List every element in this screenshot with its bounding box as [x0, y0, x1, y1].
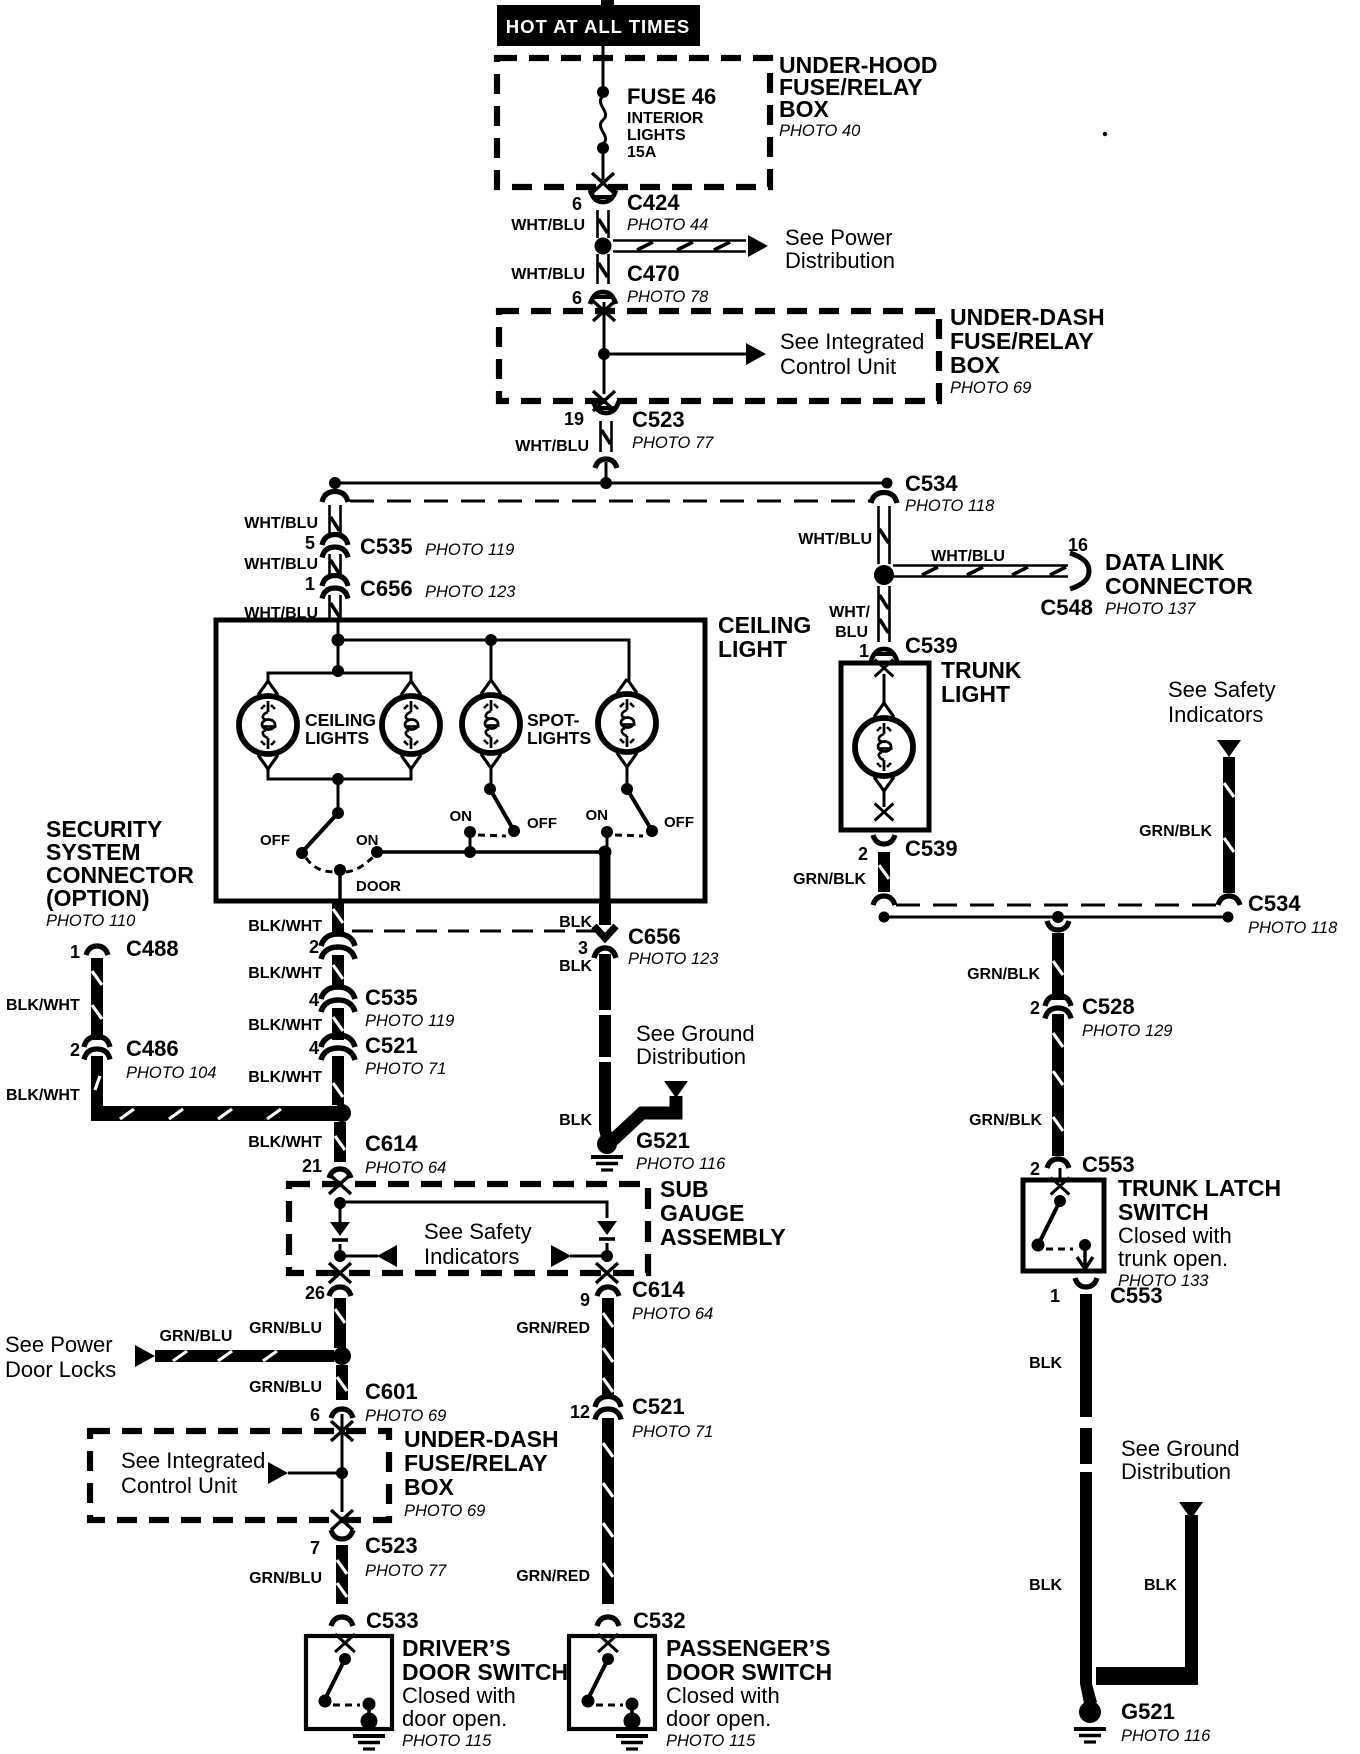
svg-text:See Ground: See Ground — [1121, 1436, 1240, 1461]
trunk latch right contact — [1079, 1239, 1091, 1251]
svg-text:WHT/BLU: WHT/BLU — [798, 531, 872, 548]
svg-text:Distribution: Distribution — [1121, 1459, 1231, 1484]
node security splice — [333, 1104, 351, 1122]
wire GRN/BLU from power door locks — [155, 1350, 334, 1362]
label passenger door switch — [666, 1635, 832, 1750]
wire down to spotlight 1 — [490, 640, 493, 681]
wire down to ceiling lamps split — [337, 640, 340, 671]
svg-text:PHOTO 123: PHOTO 123 — [425, 583, 516, 601]
passenger switch lever — [588, 1659, 608, 1699]
ceiling switch OFF contact — [296, 847, 308, 859]
svg-text:PHOTO 69: PHOTO 69 — [950, 379, 1031, 397]
svg-text:See Integrated: See Integrated — [121, 1448, 265, 1473]
power source label HOT AT ALL TIMES — [497, 5, 700, 46]
arrow exit under-hood box — [592, 173, 614, 193]
connector C523 pin 7 — [331, 1530, 353, 1539]
arrow enter under-dash box — [593, 301, 615, 321]
node integrated control tap — [598, 348, 610, 360]
svg-text:FUSE/RELAY: FUSE/RELAY — [950, 328, 1094, 354]
svg-text:19: 19 — [564, 409, 584, 429]
node bus to ground exit — [599, 846, 612, 859]
svg-text:BLK/WHT: BLK/WHT — [248, 1069, 322, 1086]
label trunk light — [941, 657, 1022, 707]
arrow inside trunk light lower — [875, 804, 894, 821]
svg-text:BLK: BLK — [1144, 1577, 1177, 1594]
svg-text:BLK: BLK — [559, 1112, 592, 1129]
arrowhead see safety right — [551, 1245, 571, 1267]
svg-text:PHOTO 118: PHOTO 118 — [1248, 919, 1338, 937]
label sub gauge assembly — [660, 1176, 786, 1250]
wire GRN/BLK bus to C528 — [1052, 933, 1064, 1000]
driver switch dashed link — [333, 1704, 360, 1707]
svg-text:OFF: OFF — [664, 814, 694, 831]
svg-text:GRN/RED: GRN/RED — [516, 1568, 590, 1585]
svg-text:C553: C553 — [1082, 1152, 1135, 1177]
svg-text:C656: C656 — [628, 924, 681, 949]
svg-text:Closed with: Closed with — [1118, 1223, 1232, 1248]
spotlight switch 1 lever — [490, 789, 513, 829]
svg-text:PHOTO 119: PHOTO 119 — [365, 1012, 454, 1030]
label C521 right — [632, 1394, 713, 1441]
svg-text:C532: C532 — [633, 1608, 686, 1633]
wire BLK/WHT C486 to splice elbow — [91, 1056, 341, 1121]
label see safety indicators right — [1168, 677, 1276, 727]
node spotlight 1 tap — [485, 634, 497, 646]
driver switch lever — [325, 1659, 345, 1699]
svg-text:21: 21 — [302, 1156, 322, 1176]
wire GRN/RED C614 to C521 — [602, 1298, 614, 1398]
ceiling switch DOOR contact — [334, 864, 346, 876]
svg-text:DATA LINK: DATA LINK — [1105, 549, 1225, 575]
label security system connector — [46, 816, 194, 930]
svg-text:trunk open.: trunk open. — [1118, 1246, 1228, 1271]
node trunk bus right — [1223, 912, 1234, 923]
connector C521 pin 12 — [595, 1397, 621, 1420]
arrow exit sub gauge left — [329, 1263, 351, 1283]
node trunk bus left — [879, 912, 890, 923]
svg-text:WHT/BLU: WHT/BLU — [511, 217, 585, 234]
connector C534 right half — [871, 493, 897, 504]
svg-text:BLK/WHT: BLK/WHT — [248, 965, 322, 982]
svg-text:door open.: door open. — [402, 1706, 507, 1731]
node fuse top — [597, 86, 609, 98]
wire DOOR contact to box edge — [338, 874, 342, 901]
svg-text:GRN/BLU: GRN/BLU — [160, 1328, 233, 1345]
wire elbow to G521 — [613, 1096, 676, 1140]
connector C523 lower half — [595, 459, 617, 468]
wire WHT/BLU below C523 — [601, 421, 612, 452]
label C614 right side — [632, 1277, 713, 1323]
svg-text:C521: C521 — [365, 1033, 418, 1058]
connector C533 — [331, 1617, 353, 1626]
svg-text:4: 4 — [309, 990, 319, 1010]
trunk latch left contact — [1032, 1239, 1045, 1252]
arrowhead from power door locks — [135, 1345, 155, 1367]
wire inside under-dash box lower — [341, 1424, 344, 1512]
wire ON bus inside ceiling box — [377, 850, 604, 854]
svg-text:PHOTO 77: PHOTO 77 — [365, 1562, 447, 1580]
connector C528 upper fork — [1047, 921, 1069, 930]
wire WHT/BLU to C539 — [879, 586, 890, 642]
svg-text:UNDER-DASH: UNDER-DASH — [950, 304, 1105, 330]
svg-text:BLK: BLK — [1029, 1577, 1062, 1594]
wire sub gauge top rail — [340, 1202, 607, 1218]
label data link connector — [1040, 549, 1253, 620]
svg-text:CEILING: CEILING — [305, 710, 376, 730]
arrowhead to integrated control unit lower — [268, 1462, 288, 1484]
spotlight switch 1 ON contact — [464, 826, 476, 838]
svg-text:Control Unit: Control Unit — [121, 1473, 237, 1498]
connector C523 pin 19 — [593, 401, 619, 413]
label see ground distribution right — [1121, 1436, 1240, 1484]
svg-text:PHOTO 78: PHOTO 78 — [627, 288, 709, 306]
ceiling switch position arc dashed — [306, 857, 373, 872]
svg-text:2: 2 — [1030, 998, 1040, 1018]
node safety pointer right — [601, 1250, 613, 1262]
label see ground distribution left — [636, 1021, 755, 1069]
svg-text:C523: C523 — [632, 407, 685, 432]
svg-text:PHOTO 44: PHOTO 44 — [627, 216, 708, 234]
wire GRN/BLU C523 to C533 — [336, 1545, 348, 1604]
svg-text:Closed with: Closed with — [666, 1683, 780, 1708]
ceiling light unit box — [216, 620, 705, 901]
connector C614 pin 21 — [329, 1169, 351, 1178]
connector C424 pin 6 — [590, 190, 616, 202]
passenger switch left contact — [582, 1695, 595, 1708]
connector C535 pin 5 — [322, 535, 348, 558]
svg-text:BLK/WHT: BLK/WHT — [248, 1134, 322, 1151]
node safety pointer left — [334, 1250, 346, 1262]
label C486 — [126, 1036, 216, 1082]
wire BLK inside ceiling box — [600, 852, 611, 899]
ceiling switch ON contact — [371, 846, 383, 858]
svg-text:15A: 15A — [627, 144, 657, 161]
wire BLK ground distribution branch — [1096, 1515, 1198, 1685]
connector C534 span dashed link — [350, 500, 872, 503]
node ceiling lamps join — [332, 773, 344, 785]
svg-text:WHT/BLU: WHT/BLU — [244, 556, 318, 573]
connector C534 left half — [322, 492, 348, 503]
svg-text:CEILING: CEILING — [718, 612, 811, 638]
arrowhead see power distribution — [748, 235, 768, 257]
arrowhead from ground distribution — [664, 1081, 688, 1098]
label see integrated control unit — [780, 329, 924, 379]
arrow enter sub gauge left — [329, 1174, 351, 1194]
connector C521 pin 4 — [321, 1035, 355, 1060]
svg-text:Control Unit: Control Unit — [780, 354, 896, 379]
connector C601 pin 6 — [331, 1409, 353, 1418]
svg-text:12: 12 — [570, 1402, 590, 1422]
node ceiling feed — [332, 634, 345, 647]
wire GRN/BLK C528 to C553 — [1052, 1014, 1064, 1156]
connector C656 pin 2 — [321, 934, 355, 959]
svg-text:C528: C528 — [1082, 994, 1135, 1019]
trunk latch lever — [1039, 1201, 1060, 1243]
connector C470 pin 6 — [590, 292, 616, 304]
safety indicator diode left — [330, 1222, 350, 1240]
svg-text:C548: C548 — [1040, 595, 1093, 620]
wire bracket over ceiling lamps — [268, 673, 411, 682]
svg-text:BLK/WHT: BLK/WHT — [6, 997, 80, 1014]
svg-text:TRUNK LATCH: TRUNK LATCH — [1118, 1175, 1281, 1201]
label driver door switch — [402, 1635, 568, 1750]
under-dash fuse/relay box — [499, 311, 939, 401]
svg-text:SWITCH: SWITCH — [1118, 1199, 1209, 1225]
connector C534 lower left half — [873, 896, 895, 905]
svg-text:1: 1 — [70, 942, 80, 962]
under-dash box label — [950, 304, 1105, 397]
svg-text:7: 7 — [310, 1538, 320, 1558]
wire BLK/WHT C535 to C521 — [332, 1008, 344, 1040]
svg-text:GRN/BLK: GRN/BLK — [967, 966, 1040, 983]
svg-text:door open.: door open. — [666, 1706, 771, 1731]
wire to door switch pivot — [337, 779, 340, 813]
svg-text:Indicators: Indicators — [424, 1244, 519, 1269]
wire inside trunk light upper — [883, 674, 886, 704]
node data link tap — [874, 565, 894, 585]
wire WHT/BLU C656 to ceiling light box — [330, 595, 341, 622]
wire WHT/BLU below C424 — [598, 210, 609, 238]
wire GRN/BLU C614 to splice — [334, 1298, 346, 1348]
svg-text:DRIVER’S: DRIVER’S — [402, 1635, 511, 1661]
svg-text:4: 4 — [309, 1038, 319, 1058]
svg-text:2: 2 — [1030, 1159, 1040, 1179]
svg-text:C553: C553 — [1110, 1283, 1163, 1308]
svg-text:C533: C533 — [366, 1608, 419, 1633]
svg-text:LIGHT: LIGHT — [941, 681, 1010, 707]
svg-text:PHOTO 115: PHOTO 115 — [666, 1732, 756, 1750]
svg-text:BOX: BOX — [950, 352, 1001, 378]
under-hood box label — [779, 52, 937, 140]
wire fuse to box edge — [602, 148, 605, 180]
svg-text:ON: ON — [450, 808, 473, 825]
connector C614 pin 9 — [597, 1287, 619, 1296]
label under-dash box lower — [404, 1426, 559, 1520]
wire C523 to splice bus — [605, 462, 608, 483]
passenger switch pivot — [602, 1653, 614, 1665]
label see integrated control unit lower — [121, 1448, 265, 1498]
label C534 top — [905, 471, 995, 515]
wire WHT/BLU C534 to data link tap — [879, 506, 890, 564]
wire spotlight1 ON to bus — [469, 832, 472, 852]
label C614 — [365, 1131, 446, 1177]
wire from hot feed to under-hood box — [602, 44, 605, 60]
arrow exit under-dash box — [593, 391, 615, 411]
connector C553 pin 1 — [1075, 1278, 1097, 1287]
svg-text:1: 1 — [1050, 1286, 1060, 1306]
svg-text:PHOTO 71: PHOTO 71 — [365, 1060, 446, 1078]
svg-text:Distribution: Distribution — [785, 248, 895, 273]
wire splice bus to ceiling and trunk feeds — [335, 482, 887, 485]
arrow enter under-dash box lower — [331, 1421, 353, 1441]
trunk light bulb — [855, 703, 913, 791]
svg-text:6: 6 — [572, 194, 582, 214]
svg-text:C539: C539 — [905, 836, 958, 861]
svg-text:UNDER-DASH: UNDER-DASH — [404, 1426, 559, 1452]
passenger door switch box — [569, 1636, 655, 1729]
node power door locks splice — [333, 1347, 351, 1365]
svg-text:3: 3 — [578, 938, 588, 958]
svg-text:(OPTION): (OPTION) — [46, 885, 150, 911]
under-hood fuse/relay box — [497, 58, 770, 187]
wire WHT/BLU C535 to C656 — [330, 554, 341, 578]
svg-text:2: 2 — [70, 1040, 80, 1060]
svg-text:PHOTO 104: PHOTO 104 — [126, 1064, 216, 1082]
connector C486 pin 2 — [84, 1037, 110, 1060]
trunk latch dashed link — [1046, 1248, 1073, 1251]
label see safety indicators — [424, 1219, 532, 1269]
svg-text:Distribution: Distribution — [636, 1044, 746, 1069]
svg-text:PASSENGER’S: PASSENGER’S — [666, 1635, 830, 1661]
label C523 lower — [365, 1533, 447, 1580]
node sub gauge left — [334, 1197, 346, 1209]
svg-text:GAUGE: GAUGE — [660, 1200, 744, 1226]
passenger switch wire to ground — [630, 1704, 634, 1718]
arrowhead from safety indicators — [1217, 740, 1241, 757]
svg-text:PHOTO 115: PHOTO 115 — [402, 1732, 492, 1750]
svg-text:WHT/BLU: WHT/BLU — [515, 438, 589, 455]
label spotlights — [527, 710, 591, 748]
wire inside under-dash box — [603, 302, 606, 394]
label C534 lower — [1248, 891, 1338, 937]
svg-text:C521: C521 — [632, 1394, 685, 1419]
svg-text:INTERIOR: INTERIOR — [627, 110, 704, 127]
label C656 right — [628, 924, 719, 968]
svg-text:C601: C601 — [365, 1379, 418, 1404]
wire into fuse 46 — [602, 58, 605, 93]
wire diode right to node — [606, 1243, 609, 1262]
svg-text:ASSEMBLY: ASSEMBLY — [660, 1224, 786, 1250]
svg-text:BLK: BLK — [1029, 1355, 1062, 1372]
speck artifact — [1103, 132, 1107, 136]
wire GRN/BLU C601 into box — [341, 1414, 344, 1431]
svg-text:PHOTO 69: PHOTO 69 — [365, 1407, 446, 1425]
node fuse bottom — [597, 142, 609, 154]
svg-text:PHOTO 137: PHOTO 137 — [1105, 600, 1196, 618]
connector C528 pin 2 — [1045, 996, 1071, 1019]
wire WHT/BLU above C470 — [598, 254, 609, 284]
connector C614 pin 26 — [329, 1287, 351, 1296]
svg-text:SPOT-: SPOT- — [527, 710, 580, 730]
ceiling switch pivot — [332, 807, 344, 819]
wire C553 into trunk latch switch — [1059, 1168, 1062, 1180]
svg-text:DOOR SWITCH: DOOR SWITCH — [402, 1659, 568, 1685]
svg-text:PHOTO 77: PHOTO 77 — [632, 434, 714, 452]
label C470 — [627, 261, 709, 306]
arrowhead from ground distribution right — [1179, 1502, 1203, 1519]
svg-text:GRN/RED: GRN/RED — [516, 1320, 590, 1337]
svg-text:PHOTO 118: PHOTO 118 — [905, 497, 995, 515]
svg-text:BLK/WHT: BLK/WHT — [248, 1017, 322, 1034]
ground G521 right — [1079, 1701, 1101, 1723]
svg-text:PHOTO 129: PHOTO 129 — [1082, 1022, 1172, 1040]
svg-text:1: 1 — [859, 641, 869, 661]
safety indicator diode right — [597, 1221, 617, 1239]
svg-text:PHOTO 69: PHOTO 69 — [404, 1502, 485, 1520]
svg-text:LIGHTS: LIGHTS — [627, 127, 686, 144]
svg-text:6: 6 — [310, 1405, 320, 1425]
label trunk latch switch — [1118, 1175, 1281, 1290]
connector C488 pin 1 — [86, 946, 108, 955]
svg-text:OFF: OFF — [527, 815, 557, 832]
svg-text:See Safety: See Safety — [1168, 677, 1276, 702]
driver door switch box — [306, 1636, 392, 1729]
wire to integrated control unit — [610, 353, 748, 356]
svg-text:5: 5 — [305, 533, 315, 553]
svg-text:HOT AT ALL TIMES: HOT AT ALL TIMES — [506, 16, 691, 37]
svg-text:WHT/BLU: WHT/BLU — [931, 548, 1005, 565]
arrow exit sub gauge right — [596, 1263, 618, 1283]
svg-text:See Power: See Power — [785, 225, 893, 250]
svg-text:G521: G521 — [1121, 1699, 1175, 1724]
svg-text:G521: G521 — [636, 1128, 690, 1153]
wire inside trunk light lower — [883, 791, 886, 807]
connector C656 pin 1 — [322, 576, 348, 599]
connector C656 span dashed link — [352, 930, 596, 933]
node bus center — [600, 477, 612, 489]
svg-text:FUSE 46: FUSE 46 — [627, 84, 716, 109]
connector C535 pin 4 — [321, 987, 355, 1012]
svg-text:9: 9 — [580, 1290, 590, 1310]
passenger switch right contact — [626, 1698, 639, 1711]
wire WHT/BLU C534 to C535 — [330, 505, 341, 537]
svg-text:PHOTO 116: PHOTO 116 — [1121, 1727, 1211, 1745]
label G521 left — [636, 1128, 726, 1173]
ceiling lamp 1 — [239, 681, 297, 769]
svg-text:BLK/WHT: BLK/WHT — [248, 918, 322, 935]
connector C548 data link — [1070, 553, 1089, 589]
svg-text:BOX: BOX — [404, 1474, 455, 1500]
wire color label WHT/BLU above C539 — [829, 604, 870, 641]
svg-text:PHOTO 119: PHOTO 119 — [425, 541, 514, 559]
label C523 — [632, 407, 714, 452]
wire BLK C656 to G521 — [599, 954, 615, 1146]
label see power door locks — [5, 1332, 116, 1382]
wire pointer right — [570, 1255, 607, 1258]
svg-text:WHT/: WHT/ — [829, 604, 870, 621]
fuse F46 element — [600, 96, 605, 144]
svg-text:LIGHT: LIGHT — [718, 636, 787, 662]
driver switch right contact — [363, 1698, 376, 1711]
svg-text:C535: C535 — [360, 534, 413, 559]
svg-text:PHOTO 71: PHOTO 71 — [632, 1423, 713, 1441]
svg-text:PHOTO 64: PHOTO 64 — [365, 1159, 446, 1177]
wire BLK C553 to G521 — [1080, 1294, 1097, 1708]
svg-text:ON: ON — [586, 807, 609, 824]
svg-text:BLK/WHT: BLK/WHT — [6, 1087, 80, 1104]
wire diode left to node — [339, 1244, 342, 1262]
spotlight switch 1 dashed link — [478, 835, 506, 836]
label C535 — [360, 534, 514, 559]
spotlight switch 2 ON contact — [601, 826, 613, 838]
svg-text:FUSE/RELAY: FUSE/RELAY — [404, 1450, 548, 1476]
svg-text:Indicators: Indicators — [1168, 702, 1263, 727]
svg-text:C424: C424 — [627, 190, 680, 215]
svg-text:BOX: BOX — [779, 96, 830, 122]
svg-text:C488: C488 — [126, 936, 179, 961]
svg-text:GRN/BLU: GRN/BLU — [249, 1570, 322, 1587]
arrowhead see integrated control unit — [746, 343, 766, 365]
svg-text:PHOTO 110: PHOTO 110 — [46, 912, 136, 930]
driver switch pivot — [339, 1653, 351, 1665]
label C528 — [1082, 994, 1172, 1040]
svg-text:See Integrated: See Integrated — [780, 329, 924, 354]
svg-text:OFF: OFF — [260, 832, 290, 849]
spotlight switch 2 OFF contact — [646, 825, 658, 837]
node power distribution tap — [595, 238, 612, 255]
wire GRN/BLK safety to C534 — [1223, 757, 1235, 893]
svg-text:See Safety: See Safety — [424, 1219, 532, 1244]
